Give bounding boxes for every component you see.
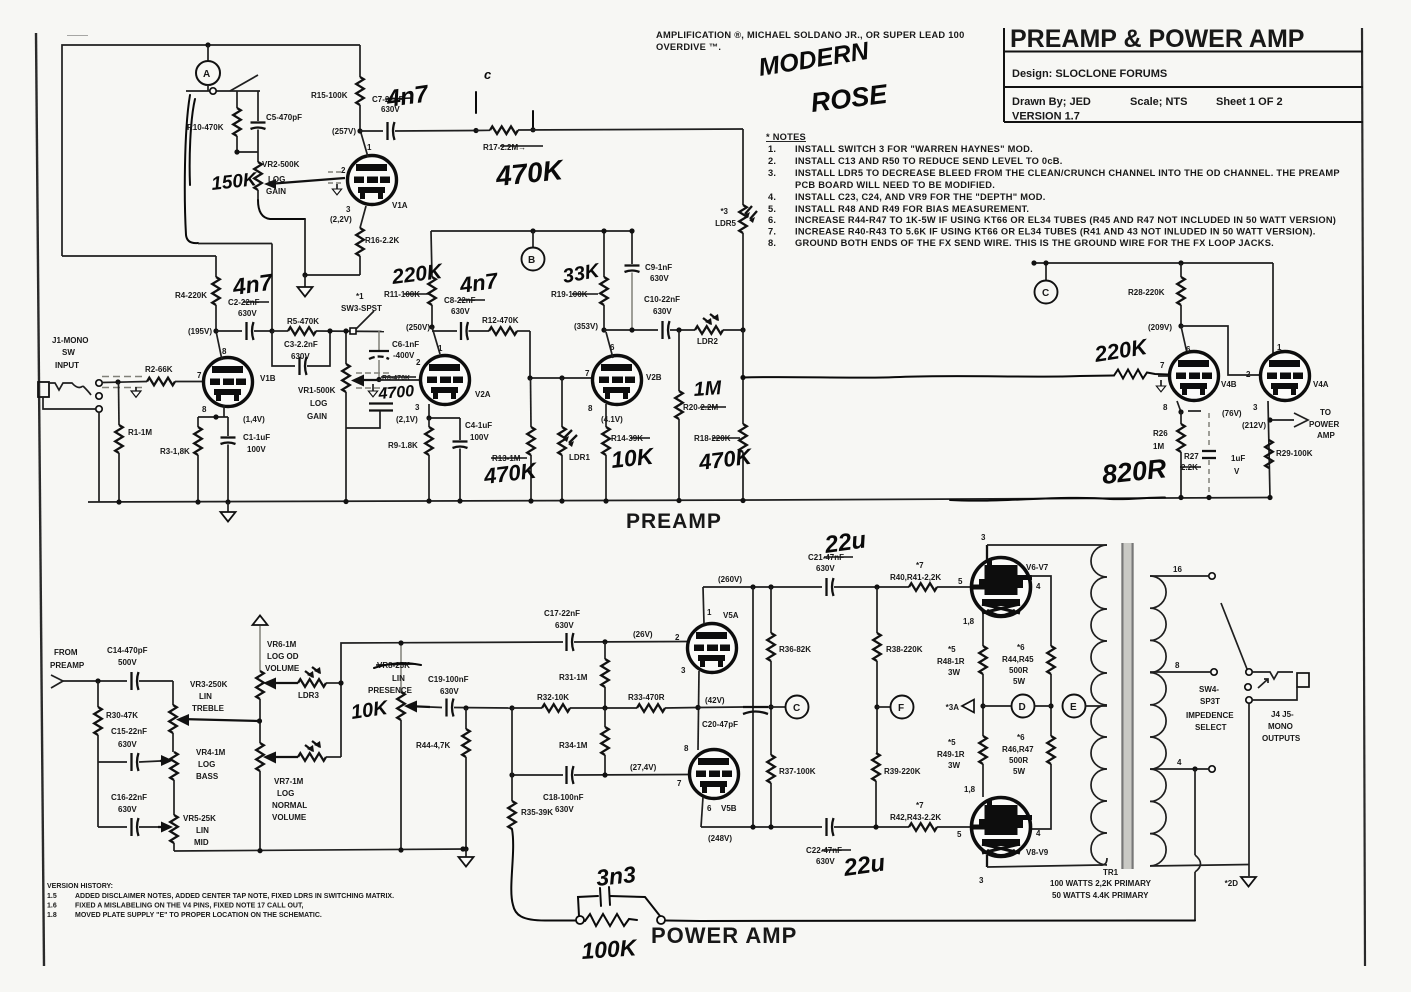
svg-text:C10-22nF: C10-22nF — [644, 295, 680, 304]
svg-text:1uF: 1uF — [1231, 454, 1245, 463]
node C circle (power) — [771, 706, 786, 708]
svg-text:4: 4 — [1177, 758, 1182, 767]
svg-text:1.5: 1.5 — [47, 893, 57, 900]
svg-text:INCREASE R40-R43 TO 5.6K IF US: INCREASE R40-R43 TO 5.6K IF USING KT66 O… — [795, 227, 1316, 237]
svg-text:R44-4,7K: R44-4,7K — [416, 741, 450, 750]
V6-V7 screen wire right — [1031, 576, 1051, 646]
V1B plate wire — [216, 331, 222, 360]
node junction on top rail — [205, 42, 210, 47]
svg-text:16: 16 — [1173, 565, 1182, 574]
svg-text:POWER AMP: POWER AMP — [651, 923, 797, 948]
svg-text:(353V): (353V) — [574, 322, 598, 331]
capacitor C16-22nF 630V — [97, 762, 99, 827]
svg-text:R34-1M: R34-1M — [559, 741, 588, 750]
coupling row y=642 — [567, 633, 574, 651]
svg-text:2.: 2. — [768, 156, 776, 166]
svg-text:5.: 5. — [768, 204, 776, 214]
svg-text:Design: SLOCLONE FORUMS: Design: SLOCLONE FORUMS — [1012, 68, 1167, 80]
resistor R49-1R 3W — [979, 736, 987, 764]
svg-text:C9-1nF: C9-1nF — [645, 263, 672, 272]
svg-text:C: C — [1042, 288, 1049, 299]
svg-text:*6: *6 — [1017, 643, 1025, 652]
V8-V9 plate bottom wire — [986, 855, 988, 867]
V4A cathode to bus — [1268, 401, 1270, 498]
svg-text:4: 4 — [1036, 582, 1041, 591]
LDR1 — [561, 378, 563, 427]
svg-text:R46,R47: R46,R47 — [1002, 745, 1034, 754]
svg-text:R39-220K: R39-220K — [884, 767, 921, 776]
svg-text:*5: *5 — [948, 738, 956, 747]
svg-text:R1-1M: R1-1M — [128, 428, 152, 437]
capacitor C14-470pF 500V — [132, 672, 139, 690]
svg-text:SP3T: SP3T — [1200, 697, 1220, 706]
svg-text:(42V): (42V) — [705, 696, 725, 705]
svg-text:INCREASE R44-R47 TO 1K-5W IF U: INCREASE R44-R47 TO 1K-5W IF USING KT66 … — [795, 215, 1336, 225]
svg-text:FIXED A MISLABELING ON THE V4: FIXED A MISLABELING ON THE V4 PINS, FIXE… — [75, 903, 303, 910]
svg-text:OUTPUTS: OUTPUTS — [1262, 734, 1301, 743]
switch row under meter — [186, 90, 260, 92]
small ground at input — [135, 387, 137, 391]
resistor R13 (470K) — [530, 378, 533, 427]
triode V1A — [348, 156, 397, 205]
svg-text:500R: 500R — [1009, 756, 1028, 765]
svg-text:R5-470K: R5-470K — [287, 317, 319, 326]
svg-text:-400V: -400V — [393, 351, 415, 360]
svg-text:R27: R27 — [1184, 452, 1199, 461]
svg-text:3: 3 — [681, 666, 686, 675]
svg-text:VOLUME: VOLUME — [265, 664, 300, 673]
resistor R18 (470K) — [742, 330, 744, 424]
potentiometer VR3-250K LIN TREBLE — [172, 681, 174, 705]
svg-text:AMPLIFICATION ®, MICHAEL SOLDA: AMPLIFICATION ®, MICHAEL SOLDANO JR., OR… — [656, 30, 965, 40]
svg-text:LOG: LOG — [310, 399, 327, 408]
svg-text:R31-1M: R31-1M — [559, 673, 588, 682]
svg-text:Sheet 1 OF 2: Sheet 1 OF 2 — [1216, 96, 1283, 108]
cathode column x=983 — [982, 614, 984, 646]
svg-text:C16-22nF: C16-22nF — [111, 793, 147, 802]
title block box — [1004, 28, 1363, 122]
jack sleeve path — [43, 397, 95, 409]
svg-text:R2-66K: R2-66K — [145, 365, 173, 374]
svg-text:1M: 1M — [693, 377, 724, 401]
svg-text:* NOTES: * NOTES — [766, 132, 806, 142]
svg-text:INSTALL SWITCH 3 FOR "WARREN H: INSTALL SWITCH 3 FOR "WARREN HAYNES" MOD… — [795, 144, 1033, 154]
resistor R34-1M — [601, 727, 609, 755]
resistor R10-470K — [236, 91, 238, 108]
bottom plate row y=827 — [701, 826, 822, 828]
svg-text:PREAMP: PREAMP — [626, 510, 722, 533]
V2A cathode — [428, 404, 430, 418]
svg-text:R16-2.2K: R16-2.2K — [365, 236, 399, 245]
svg-text:LOG: LOG — [198, 760, 215, 769]
resistor R2-66K — [147, 378, 175, 386]
svg-text:630V: 630V — [555, 621, 574, 630]
triode V2B — [593, 356, 642, 405]
svg-text:7: 7 — [677, 779, 682, 788]
svg-text:*2D: *2D — [1225, 879, 1239, 888]
potentiometer VR7-1M LOG NORMAL VOLUME — [256, 743, 264, 771]
svg-text:R42,R43-2.2K: R42,R43-2.2K — [890, 813, 941, 822]
capacitor C2 (4n7) — [216, 330, 242, 332]
capacitor C8 (4n7) plate row — [432, 330, 457, 332]
node E circle — [1063, 695, 1086, 718]
resistor R46,R47 500R 5W — [1047, 736, 1055, 764]
svg-text:7.: 7. — [768, 227, 776, 237]
triode V4B — [1181, 326, 1187, 353]
LDR5 — [739, 205, 747, 233]
svg-text:630V: 630V — [653, 307, 672, 316]
capacitor C10-22nF 630V — [663, 321, 670, 339]
svg-text:1.8: 1.8 — [47, 912, 57, 919]
switching column — [341, 642, 563, 757]
svg-text:TREBLE: TREBLE — [192, 704, 225, 713]
svg-text:C4-1uF: C4-1uF — [465, 421, 492, 430]
ground below VR2 return — [304, 275, 306, 287]
upper ground triangle of OD volume — [253, 616, 268, 626]
capacitor C22 (22u) — [827, 818, 834, 836]
svg-text:(248V): (248V) — [708, 834, 732, 843]
node (209V) — [1178, 323, 1183, 328]
svg-text:630V: 630V — [555, 805, 574, 814]
svg-text:INSTALL R48 AND R49 FOR BIAS M: INSTALL R48 AND R49 FOR BIAS MEASUREMENT… — [795, 204, 1029, 214]
svg-text:7: 7 — [197, 371, 202, 380]
R38/R39 column — [876, 587, 878, 633]
svg-text:(2,1V): (2,1V) — [396, 415, 418, 424]
svg-text:R28-220K: R28-220K — [1128, 288, 1165, 297]
svg-text:R4-220K: R4-220K — [175, 291, 207, 300]
top plate row y=587 — [703, 586, 822, 588]
dashed shield lines — [102, 376, 145, 378]
svg-text:(212V): (212V) — [1242, 421, 1266, 430]
svg-text:Scale; NTS: Scale; NTS — [1130, 96, 1187, 108]
resistor R48-1R 3W — [979, 646, 987, 674]
resistor R44,R45 500R 5W — [1047, 646, 1055, 674]
svg-text:C5-470pF: C5-470pF — [266, 113, 302, 122]
ammeter A — [207, 45, 209, 61]
svg-text:50 WATTS 4.4K PRIMARY: 50 WATTS 4.4K PRIMARY — [1052, 891, 1149, 900]
V1A cathode wire — [360, 206, 366, 228]
svg-text:C19-100nF: C19-100nF — [428, 675, 469, 684]
svg-text:F: F — [898, 703, 904, 714]
resistor R4-220K — [215, 256, 217, 277]
svg-text:4n7: 4n7 — [457, 268, 501, 298]
triode V4A — [1272, 263, 1274, 354]
svg-text:LIN: LIN — [392, 674, 405, 683]
hand node circles — [576, 916, 584, 924]
capacitor C3-2.2nF parallel loop — [272, 331, 295, 366]
svg-text:7: 7 — [585, 369, 590, 378]
triode V5B — [690, 750, 739, 799]
svg-text:VERSION 1.7: VERSION 1.7 — [1012, 111, 1080, 123]
svg-text:(257V): (257V) — [332, 127, 356, 136]
svg-text:MID: MID — [194, 838, 209, 847]
grid stopper dashes at V1A grid — [328, 171, 344, 173]
resistor R5-470K — [288, 327, 316, 335]
*3A arrow — [980, 703, 985, 708]
svg-text:470K: 470K — [697, 443, 755, 475]
capacitor C15-22nF 630V — [132, 753, 139, 771]
svg-text:8: 8 — [588, 404, 593, 413]
svg-text:*3A: *3A — [946, 703, 960, 712]
svg-text:4: 4 — [1036, 829, 1041, 838]
resistor R12-470K — [489, 327, 517, 335]
V5A cathode chain — [698, 671, 699, 750]
capacitor C21 (22u) — [827, 578, 834, 596]
svg-text:MODERN: MODERN — [757, 37, 872, 82]
svg-text:V1A: V1A — [392, 201, 408, 210]
svg-text:SW: SW — [62, 348, 75, 357]
svg-text:VR1-500K: VR1-500K — [298, 386, 336, 395]
svg-text:V2A: V2A — [475, 390, 491, 399]
svg-text:VERSION HISTORY:: VERSION HISTORY: — [47, 883, 113, 890]
switch SW4-SP3T — [1221, 603, 1247, 669]
svg-text:R49-1R: R49-1R — [937, 750, 965, 759]
potentiometer VR6-1M LOG OD VOLUME — [256, 671, 264, 699]
svg-text:(76V): (76V) — [1222, 409, 1242, 418]
feedback line to transformer tap — [666, 920, 1195, 923]
svg-text:VR6-1M: VR6-1M — [267, 640, 297, 649]
svg-text:GAIN: GAIN — [266, 187, 286, 196]
resistor R15-100K — [359, 45, 361, 77]
svg-text:c: c — [484, 67, 492, 82]
svg-text:V2B: V2B — [646, 373, 662, 382]
svg-text:8: 8 — [202, 405, 207, 414]
svg-text:(26V): (26V) — [633, 630, 653, 639]
svg-text:150K: 150K — [210, 169, 259, 195]
svg-text:FROM: FROM — [54, 648, 78, 657]
svg-text:2: 2 — [341, 166, 346, 175]
svg-text:VOLUME: VOLUME — [272, 813, 307, 822]
svg-text:3: 3 — [1253, 403, 1258, 412]
secondary taps — [1150, 575, 1208, 577]
V1B cathode — [223, 405, 225, 417]
svg-text:V5B: V5B — [721, 804, 737, 813]
svg-text:LOG: LOG — [268, 175, 285, 184]
top rail y=263 — [1034, 262, 1273, 264]
svg-text:*6: *6 — [1017, 733, 1025, 742]
svg-text:1,8: 1,8 — [964, 785, 976, 794]
svg-text:V: V — [1234, 467, 1240, 476]
svg-text:R10-470K: R10-470K — [187, 123, 224, 132]
svg-text:R36-82K: R36-82K — [779, 645, 811, 654]
lower row y=775 — [512, 774, 563, 776]
svg-text:3: 3 — [981, 533, 986, 542]
resistor R32-10K — [542, 704, 570, 712]
svg-text:8: 8 — [222, 347, 227, 356]
svg-text:220K: 220K — [1092, 334, 1151, 367]
svg-text:ROSE: ROSE — [809, 79, 890, 118]
svg-text:C14-470pF: C14-470pF — [107, 646, 148, 655]
resistor R28-220K — [1180, 263, 1182, 277]
svg-text:7: 7 — [1160, 361, 1165, 370]
potentiometer VR8-25K LIN PRESENCE (10K) — [400, 643, 402, 692]
svg-text:*1: *1 — [356, 292, 364, 301]
svg-text:VR2-500K: VR2-500K — [262, 160, 300, 169]
svg-text:INSTALL LDR5 TO DECREASE BLEED: INSTALL LDR5 TO DECREASE BLEED FROM THE … — [795, 168, 1340, 178]
svg-text:———: ——— — [67, 32, 88, 39]
svg-text:ADDED DISCLAIMER NOTES, ADDED: ADDED DISCLAIMER NOTES, ADDED CENTER TAP… — [75, 893, 394, 900]
resistor R31-1M — [604, 642, 606, 659]
plate row y=330 — [604, 329, 658, 331]
R36/R37 column — [770, 587, 772, 633]
hand 100K resistor — [585, 914, 637, 926]
svg-text:R3-1,8K: R3-1,8K — [160, 447, 190, 456]
svg-text:(4.1V): (4.1V) — [601, 415, 623, 424]
svg-text:1: 1 — [367, 143, 372, 152]
LDR4 — [298, 753, 326, 761]
svg-text:J4 J5-: J4 J5- — [1271, 710, 1294, 719]
capacitor C1-1uF 100V — [227, 417, 229, 436]
svg-text:5W: 5W — [1013, 767, 1025, 776]
svg-text:D: D — [1019, 702, 1026, 713]
svg-text:1.: 1. — [768, 144, 776, 154]
ground on preamp bus — [227, 502, 229, 512]
power tube V6-V7 — [972, 558, 1033, 617]
resistor R9-1,8K — [428, 418, 430, 427]
potentiometer VR2-500K LOG GAIN — [257, 152, 259, 162]
resistor R1-1M — [118, 382, 121, 425]
svg-text:POWER: POWER — [1309, 420, 1339, 429]
svg-text:C15-22nF: C15-22nF — [111, 727, 147, 736]
secondary winding — [1150, 576, 1166, 866]
node D circle — [983, 705, 1012, 707]
svg-text:LDR3: LDR3 — [298, 691, 319, 700]
to power amp arrow — [1272, 419, 1294, 421]
svg-text:630V: 630V — [440, 687, 459, 696]
svg-text:*3: *3 — [720, 207, 728, 216]
resistor R30-47K — [97, 681, 99, 707]
resistor R11 (220K) — [428, 277, 436, 305]
svg-text:INSTALL C13 AND R50 TO REDUCE: INSTALL C13 AND R50 TO REDUCE SEND LEVEL… — [795, 156, 1063, 166]
resistor R20 (1M) — [678, 330, 680, 391]
node C circle — [1045, 263, 1047, 281]
svg-text:3: 3 — [346, 205, 351, 214]
secondary bottom to ground — [1150, 865, 1249, 867]
svg-text:22u: 22u — [822, 526, 868, 559]
small ground at V4B grid — [1160, 380, 1162, 386]
left page border — [36, 33, 44, 966]
svg-text:VR3-250K: VR3-250K — [190, 680, 228, 689]
ghost cap below VR1 wiper — [369, 402, 393, 404]
node B — [530, 228, 535, 233]
node at C2/R5 — [269, 328, 274, 333]
svg-text:6.: 6. — [768, 215, 776, 225]
hand 3n3 capacitor branch — [578, 896, 598, 916]
svg-text:100V: 100V — [247, 445, 266, 454]
svg-text:BASS: BASS — [196, 772, 219, 781]
svg-text:NORMAL: NORMAL — [272, 801, 307, 810]
node (257V) — [357, 128, 362, 133]
resistor R16-2.2K — [356, 228, 364, 256]
svg-text:C6-1nF: C6-1nF — [392, 340, 419, 349]
svg-text:R37-100K: R37-100K — [779, 767, 816, 776]
potentiometer VR5-25K LIN MID — [170, 815, 178, 843]
svg-text:(27,4V): (27,4V) — [630, 763, 657, 772]
svg-text:5: 5 — [957, 830, 962, 839]
svg-text:630V: 630V — [238, 309, 257, 318]
svg-text:100 WATTS 2,2K PRIMARY: 100 WATTS 2,2K PRIMARY — [1050, 879, 1152, 888]
right page border — [1362, 28, 1365, 966]
svg-text:IMPEDENCE: IMPEDENCE — [1186, 711, 1234, 720]
svg-text:V5A: V5A — [723, 611, 739, 620]
svg-text:1.6: 1.6 — [47, 903, 57, 910]
svg-text:5: 5 — [958, 577, 963, 586]
svg-text:3n3: 3n3 — [595, 861, 637, 891]
svg-text:*7: *7 — [916, 801, 924, 810]
svg-text:6: 6 — [707, 804, 712, 813]
svg-text:*7: *7 — [916, 561, 924, 570]
wire to V4A grid — [1181, 326, 1260, 375]
svg-text:4n7: 4n7 — [230, 269, 275, 301]
svg-text:1: 1 — [707, 608, 712, 617]
feedback tap line with hop — [1194, 769, 1196, 855]
resistor R29-100K — [1265, 440, 1273, 468]
capacitor C19-100nF 630V — [447, 699, 454, 717]
dashed 1uF cathode cap — [1208, 413, 1210, 449]
node F circle — [877, 706, 891, 708]
capacitor C20-47pF — [698, 706, 743, 709]
resistor R35-39K — [508, 801, 516, 829]
svg-text:C17-22nF: C17-22nF — [544, 609, 580, 618]
svg-text:(2,2V): (2,2V) — [330, 215, 352, 224]
svg-text:PREAMP & POWER AMP: PREAMP & POWER AMP — [1010, 25, 1304, 53]
svg-text:LOG OD: LOG OD — [267, 652, 299, 661]
jack J4 J5 mono outputs — [1253, 672, 1293, 679]
svg-text:*5: *5 — [948, 645, 956, 654]
svg-text:630V: 630V — [291, 352, 310, 361]
resistor R40,R41-2,2K — [909, 583, 937, 591]
potentiometer VR1-500K LOG GAIN — [345, 331, 347, 364]
svg-text:R12-470K: R12-470K — [482, 316, 519, 325]
svg-text:LDR5: LDR5 — [715, 219, 736, 228]
jack tip contact — [49, 383, 83, 390]
primary winding — [1091, 545, 1107, 865]
svg-text:1: 1 — [438, 344, 443, 353]
svg-text:LIN: LIN — [199, 692, 212, 701]
hand tick marks on send wire — [475, 92, 477, 113]
svg-text:100K: 100K — [581, 934, 639, 964]
svg-text:4.: 4. — [768, 192, 776, 202]
svg-text:220K: 220K — [390, 260, 445, 289]
core — [1121, 543, 1134, 869]
wire lower-left return — [62, 255, 216, 257]
svg-text:V4A: V4A — [1313, 380, 1329, 389]
svg-text:R9-1.8K: R9-1.8K — [388, 441, 418, 450]
small ground at V1A grid — [336, 184, 338, 189]
svg-text:C1-1uF: C1-1uF — [243, 433, 270, 442]
triode V5A — [688, 624, 737, 673]
LDR3 — [298, 679, 326, 687]
node (353V) — [601, 327, 606, 332]
svg-text:R8-470K: R8-470K — [382, 375, 410, 382]
svg-text:33K: 33K — [561, 260, 602, 288]
wiper wire to V2A grid — [379, 379, 421, 381]
svg-text:LDR1: LDR1 — [569, 453, 590, 462]
svg-text:(260V): (260V) — [718, 575, 742, 584]
svg-text:OVERDIVE ™.: OVERDIVE ™. — [656, 42, 721, 52]
resistor R14 (10K) — [602, 427, 610, 455]
svg-text:C: C — [793, 703, 800, 714]
middle row y=708 — [509, 705, 514, 710]
svg-text:(250V): (250V) — [406, 323, 430, 332]
svg-text:AMP: AMP — [1317, 431, 1335, 440]
svg-text:PRESENCE: PRESENCE — [368, 686, 413, 695]
svg-text:R26: R26 — [1153, 429, 1168, 438]
svg-text:1M: 1M — [1153, 442, 1164, 451]
switch SW3-SPST — [350, 328, 356, 334]
svg-text:3: 3 — [415, 403, 420, 412]
svg-text:R32-10K: R32-10K — [537, 693, 569, 702]
